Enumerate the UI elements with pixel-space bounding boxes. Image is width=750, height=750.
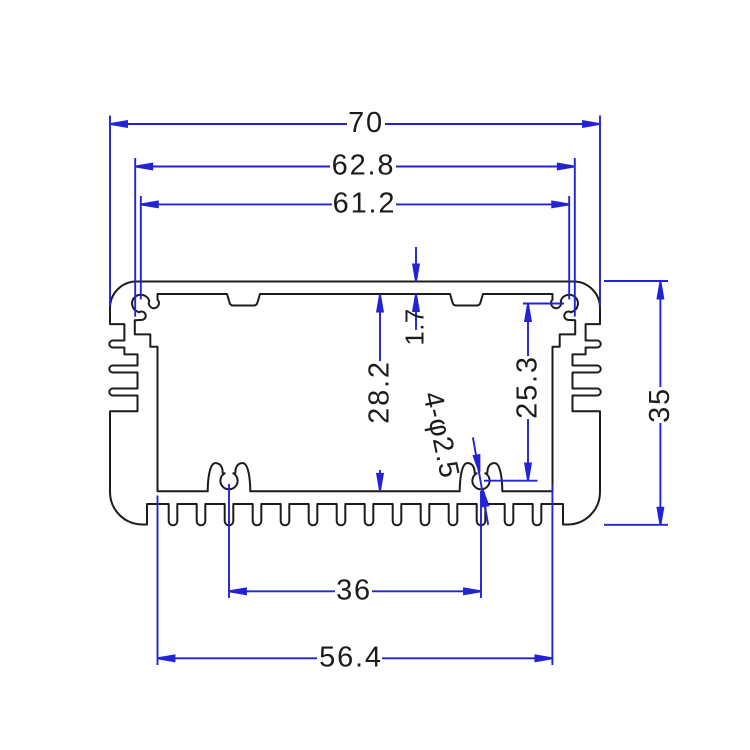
dimension 56.4: dimension line with arrows <box>158 655 553 661</box>
outer contour of extrusion <box>109 282 600 526</box>
dimension 56.4: extension line right <box>551 485 553 665</box>
svg-text:35: 35 <box>644 387 676 423</box>
svg-text:56.4: 56.4 <box>319 641 383 673</box>
dimension 1.7: lower line and arrow <box>413 294 419 330</box>
dimension 61.2: extension line left <box>140 196 142 299</box>
dimension 62.8: extension line right <box>574 158 576 317</box>
dimension 25.3: extension line bottom <box>484 480 538 482</box>
svg-text:36: 36 <box>336 574 372 606</box>
svg-text:28.2: 28.2 <box>364 360 396 424</box>
dimension 62.8: extension line left <box>134 158 136 317</box>
dimension 25.3: extension line top <box>523 303 564 305</box>
svg-text:62.8: 62.8 <box>332 150 396 182</box>
dimension 36: extension line left <box>228 484 230 598</box>
dimension 25.3: dimension line with arrows <box>525 304 531 480</box>
dimension 70: dimension line with arrows <box>110 121 600 127</box>
dimension lines <box>110 116 668 666</box>
dimension 61.2: dimension line with arrows <box>141 202 569 208</box>
dimension 35: extension line bottom <box>604 524 668 526</box>
dimension 28.2: dimension line with arrows <box>377 295 383 491</box>
svg-text:1.7: 1.7 <box>400 308 430 345</box>
svg-text:25.3: 25.3 <box>512 355 544 419</box>
dimension 56.4: extension line left <box>157 496 159 666</box>
dimension 62.8: dimension line with arrows <box>135 164 575 170</box>
dimension 61.2: extension line right <box>568 196 570 299</box>
dimension 35: extension line top <box>604 280 668 282</box>
svg-text:70: 70 <box>348 107 384 139</box>
inner cavity contour with screw bosses <box>132 294 578 491</box>
profile outline <box>109 282 600 526</box>
dimension 35: dimension line with arrows <box>658 282 664 525</box>
dimension 70: extension line left <box>109 116 111 307</box>
dimension 36: extension line right <box>480 491 482 598</box>
dimension 70: extension line right <box>599 116 601 307</box>
dimension 36: dimension line with arrows <box>229 588 481 594</box>
leader line for hole callout 4-φ2.5 with arrows <box>473 437 488 524</box>
dimension 1.7: upper line and arrow <box>413 247 419 282</box>
svg-text:61.2: 61.2 <box>333 187 397 219</box>
